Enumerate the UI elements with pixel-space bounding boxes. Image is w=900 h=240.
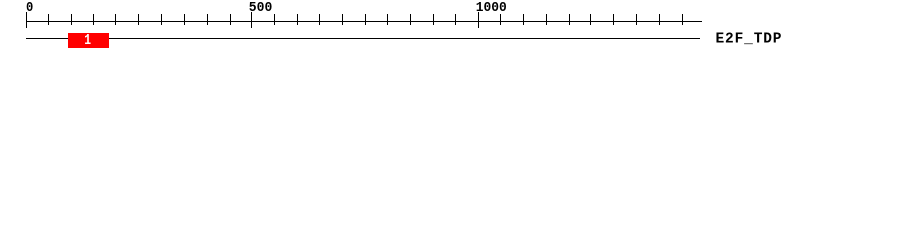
minor tick 250 [138, 14, 139, 25]
sequence backbone line [26, 38, 700, 39]
minor tick 800 [387, 14, 388, 25]
minor tick 550 [274, 14, 275, 25]
minor tick 400 [207, 14, 208, 25]
minor tick 900 [433, 14, 434, 25]
major tick 500 [251, 12, 252, 28]
minor tick 450 [230, 14, 231, 25]
minor tick 1350 [636, 14, 637, 25]
svg-text:1000: 1000 [476, 1, 507, 16]
minor tick 1400 [659, 14, 660, 25]
minor tick 600 [297, 14, 298, 25]
minor tick 700 [342, 14, 343, 25]
minor tick 350 [184, 14, 185, 25]
minor tick 750 [365, 14, 366, 25]
svg-text:0: 0 [26, 1, 33, 16]
minor tick 1450 [682, 14, 683, 25]
minor tick 150 [93, 14, 94, 25]
minor tick 50 [48, 14, 49, 25]
minor tick 950 [455, 14, 456, 25]
minor tick 300 [161, 14, 162, 25]
minor tick 850 [410, 14, 411, 25]
minor tick 1150 [546, 14, 547, 25]
svg-text:E2F_TDP: E2F_TDP [716, 32, 782, 48]
ruler ticks [26, 12, 683, 28]
minor tick 1100 [523, 14, 524, 25]
major tick 0 [26, 12, 27, 28]
minor tick 650 [319, 14, 320, 25]
background [0, 0, 900, 58]
ruler axis line [26, 21, 702, 22]
svg-text:1: 1 [84, 33, 91, 49]
minor tick 100 [71, 14, 72, 25]
svg-text:500: 500 [249, 1, 272, 16]
minor tick 1050 [500, 14, 501, 25]
major tick 1000 [478, 12, 479, 28]
motif block 1 (red) [68, 33, 109, 48]
minor tick 200 [115, 14, 116, 25]
minor tick 1200 [569, 14, 570, 25]
minor tick 1250 [590, 14, 591, 25]
minor tick 1300 [613, 14, 614, 25]
